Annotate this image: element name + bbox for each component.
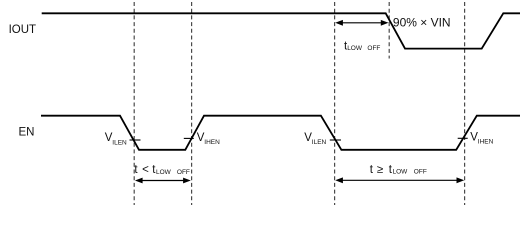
node VILEN threshold tick on second falling edge	[330, 139, 341, 141]
node tLOW OFF label (top)	[344, 40, 380, 52]
node t &ge; tLOW OFF label (bottom right)	[370, 164, 427, 176]
svg-text:IHEN: IHEN	[204, 139, 220, 146]
wire dashed guide line 3 (EN second falling edge)	[334, 2, 336, 205]
node t &lt; tLOW OFF label (bottom left)	[134, 164, 190, 176]
svg-text:OFF: OFF	[414, 169, 427, 176]
wire IOUT waveform	[42, 13, 520, 48]
wire EN waveform	[41, 116, 520, 150]
svg-text:OFF: OFF	[177, 169, 190, 176]
wire dashed guide line 2 (EN first rising edge)	[191, 2, 193, 205]
svg-text:<: <	[142, 164, 149, 176]
node VIHEN threshold tick on second rising edge	[458, 137, 468, 139]
wire t &ge; tLOW OFF dimension arrow (bottom right, between guide 3 and guide 5)	[335, 177, 464, 183]
svg-text:LOW: LOW	[347, 45, 363, 52]
svg-text:OFF: OFF	[367, 45, 380, 52]
wire dashed guide line 4 (IOUT turn-off instant)	[388, 2, 390, 59]
node VIHEN label (second rising edge)	[470, 132, 493, 146]
wire dashed guide line 1 (EN first falling edge)	[133, 2, 135, 205]
svg-text:ILEN: ILEN	[312, 139, 327, 146]
node VIHEN label (first rising edge)	[197, 132, 220, 146]
svg-text:EN: EN	[19, 126, 35, 138]
node VILEN label (first falling edge)	[105, 132, 127, 146]
wire dashed guide line 5 (EN second rising edge)	[464, 2, 466, 205]
svg-text:≥: ≥	[377, 164, 383, 176]
node VILEN threshold tick on first falling edge	[130, 139, 141, 141]
node VIHEN threshold tick on first rising edge	[184, 137, 194, 139]
svg-text:90% × VIN: 90% × VIN	[393, 16, 451, 30]
svg-text:LOW: LOW	[393, 169, 409, 176]
svg-text:LOW: LOW	[156, 169, 172, 176]
node VILEN label (second falling edge)	[304, 132, 326, 146]
svg-text:ILEN: ILEN	[112, 139, 127, 146]
wire t &lt; tLOW OFF dimension arrow (bottom left, between guide 1 and guide 2)	[135, 178, 191, 184]
wire tLOW OFF dimension arrow (top, between guide 3 and guide 4)	[335, 20, 388, 26]
svg-text:IOUT: IOUT	[9, 24, 36, 36]
svg-text:IHEN: IHEN	[478, 139, 494, 146]
